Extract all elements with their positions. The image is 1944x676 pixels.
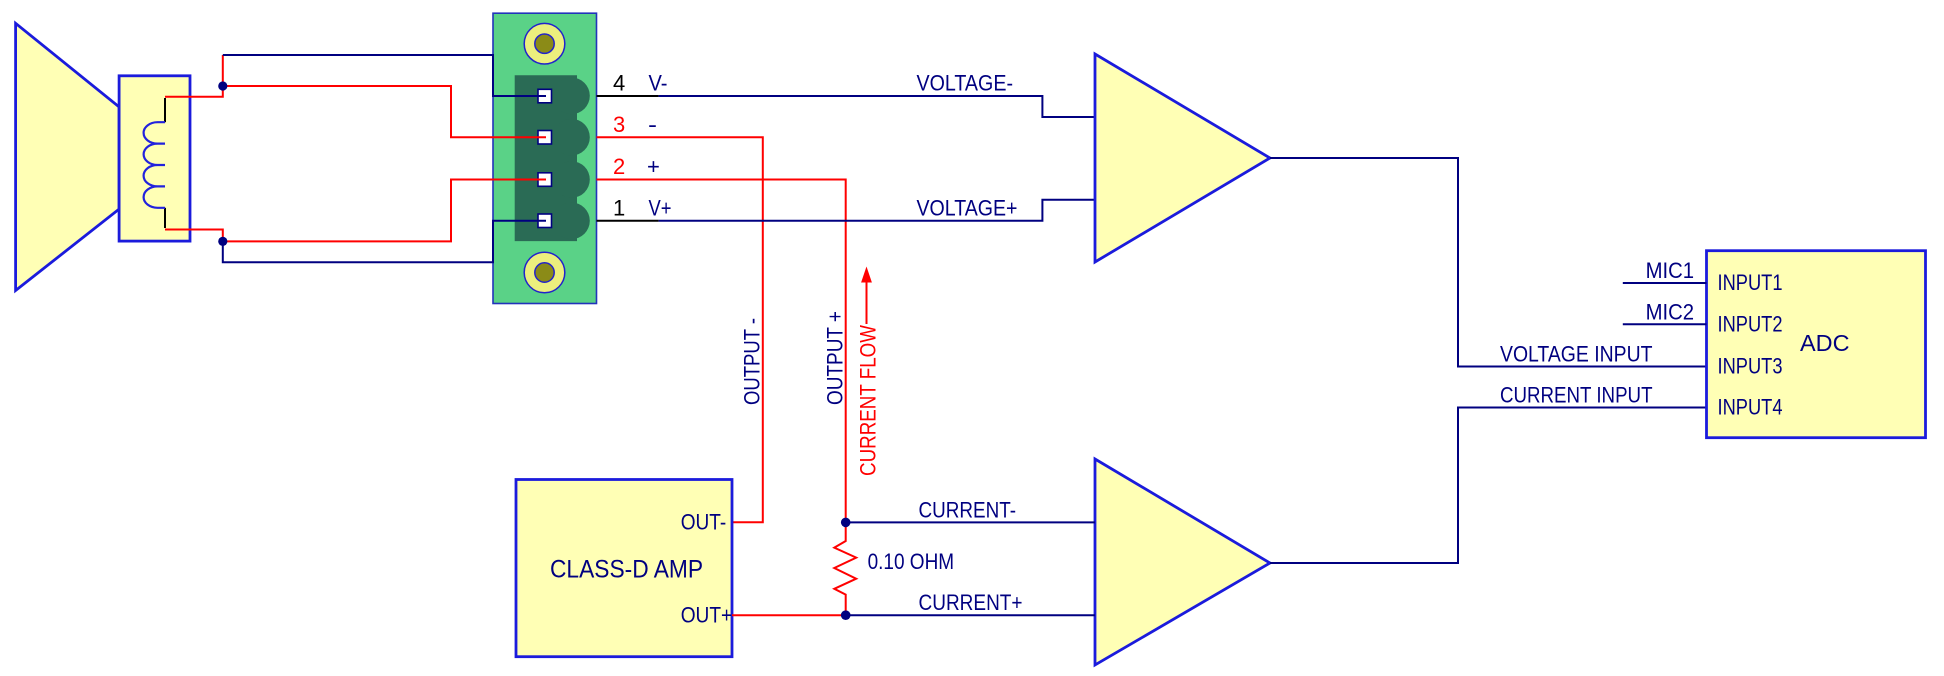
svg-text:2: 2 [613, 154, 625, 179]
wire red pin 2 to current sense node [597, 180, 846, 523]
wire red speaker minus bottom [165, 230, 223, 242]
svg-text:VOLTAGE INPUT: VOLTAGE INPUT [1500, 342, 1653, 367]
wire CURRENT- to op-amp U2 [846, 521, 1095, 523]
svg-text:CURRENT-: CURRENT- [919, 497, 1017, 522]
wire red OUT+ to node [732, 614, 846, 616]
svg-text:INPUT3: INPUT3 [1718, 354, 1783, 379]
class-d amp box [516, 480, 732, 657]
svg-text:CLASS-D AMP: CLASS-D AMP [550, 555, 703, 583]
inductor L1 bottom pin [164, 208, 166, 228]
op-amp U2 [1095, 459, 1270, 665]
wire red node to pin 3 [223, 86, 546, 137]
svg-text:INPUT4: INPUT4 [1718, 395, 1783, 420]
resistor R1 0.10 OHM [834, 522, 856, 615]
op-amp U1 [1095, 54, 1270, 262]
svg-text:ADC: ADC [1800, 330, 1850, 356]
inductor L1 top pin [164, 98, 166, 122]
wire MIC2 [1623, 323, 1707, 325]
svg-text:VOLTAGE+: VOLTAGE+ [917, 196, 1018, 221]
svg-text:CURRENT FLOW: CURRENT FLOW [856, 325, 881, 476]
svg-text:+: + [647, 154, 660, 179]
svg-text:CURRENT INPUT: CURRENT INPUT [1500, 383, 1653, 408]
wire VOLTAGE- to op-amp U1 [659, 96, 1095, 117]
connector J1 pin 2 pad [538, 173, 552, 187]
node C current minus junction [841, 518, 851, 528]
wire navy bottom from node to connector pin 1 [223, 221, 546, 262]
connector J1 housing [493, 13, 597, 303]
wire U2 output to ADC INPUT4 [1270, 408, 1707, 564]
wire MIC1 [1623, 282, 1707, 284]
connector J1 pin 4 pad [538, 89, 552, 103]
svg-text:OUTPUT +: OUTPUT + [823, 311, 848, 405]
svg-text:-: - [648, 112, 657, 137]
speaker LS1 body [119, 76, 190, 241]
connector J1 dark body [515, 75, 577, 241]
svg-text:MIC2: MIC2 [1646, 299, 1695, 324]
svg-text:3: 3 [613, 112, 625, 137]
svg-text:V+: V+ [649, 196, 672, 221]
svg-text:VOLTAGE-: VOLTAGE- [917, 71, 1014, 96]
svg-text:0.10 OHM: 0.10 OHM [868, 549, 955, 574]
svg-text:OUTPUT -: OUTPUT - [740, 318, 765, 405]
speaker LS1 cone [16, 23, 120, 290]
connector J1 top screw hole [524, 23, 565, 64]
node B bottom junction [218, 237, 227, 246]
wire U1 output to ADC INPUT3 [1270, 158, 1707, 367]
svg-text:CURRENT+: CURRENT+ [919, 590, 1023, 615]
svg-text:INPUT2: INPUT2 [1718, 311, 1783, 336]
node A top junction [218, 81, 227, 90]
svg-text:OUT-: OUT- [681, 509, 727, 534]
connector J1 bottom screw hole [524, 252, 565, 293]
wire navy top from corner to connector pin 4 [223, 55, 546, 96]
wire red pin 3 to OUT- [597, 137, 763, 522]
current flow arrow [866, 281, 868, 324]
node D current plus junction [841, 610, 851, 620]
wire red node to pin 2 [223, 180, 546, 242]
svg-text:INPUT1: INPUT1 [1718, 270, 1783, 295]
svg-text:1: 1 [613, 196, 625, 221]
wire CURRENT+ to op-amp U2 [846, 614, 1095, 616]
wire VOLTAGE+ to op-amp U1 [659, 200, 1095, 221]
pin 1 black stub [597, 220, 659, 222]
inductor L1 coil [144, 122, 165, 208]
svg-text:V-: V- [649, 71, 668, 96]
svg-text:OUT+: OUT+ [681, 602, 733, 627]
adc box [1707, 251, 1926, 438]
connector J1 pin 1 pad [538, 214, 552, 228]
wire red speaker plus top [165, 55, 223, 97]
svg-text:4: 4 [613, 71, 625, 96]
svg-text:MIC1: MIC1 [1646, 258, 1695, 283]
pin 4 black stub [597, 95, 659, 97]
connector J1 pin 3 pad [538, 131, 552, 145]
